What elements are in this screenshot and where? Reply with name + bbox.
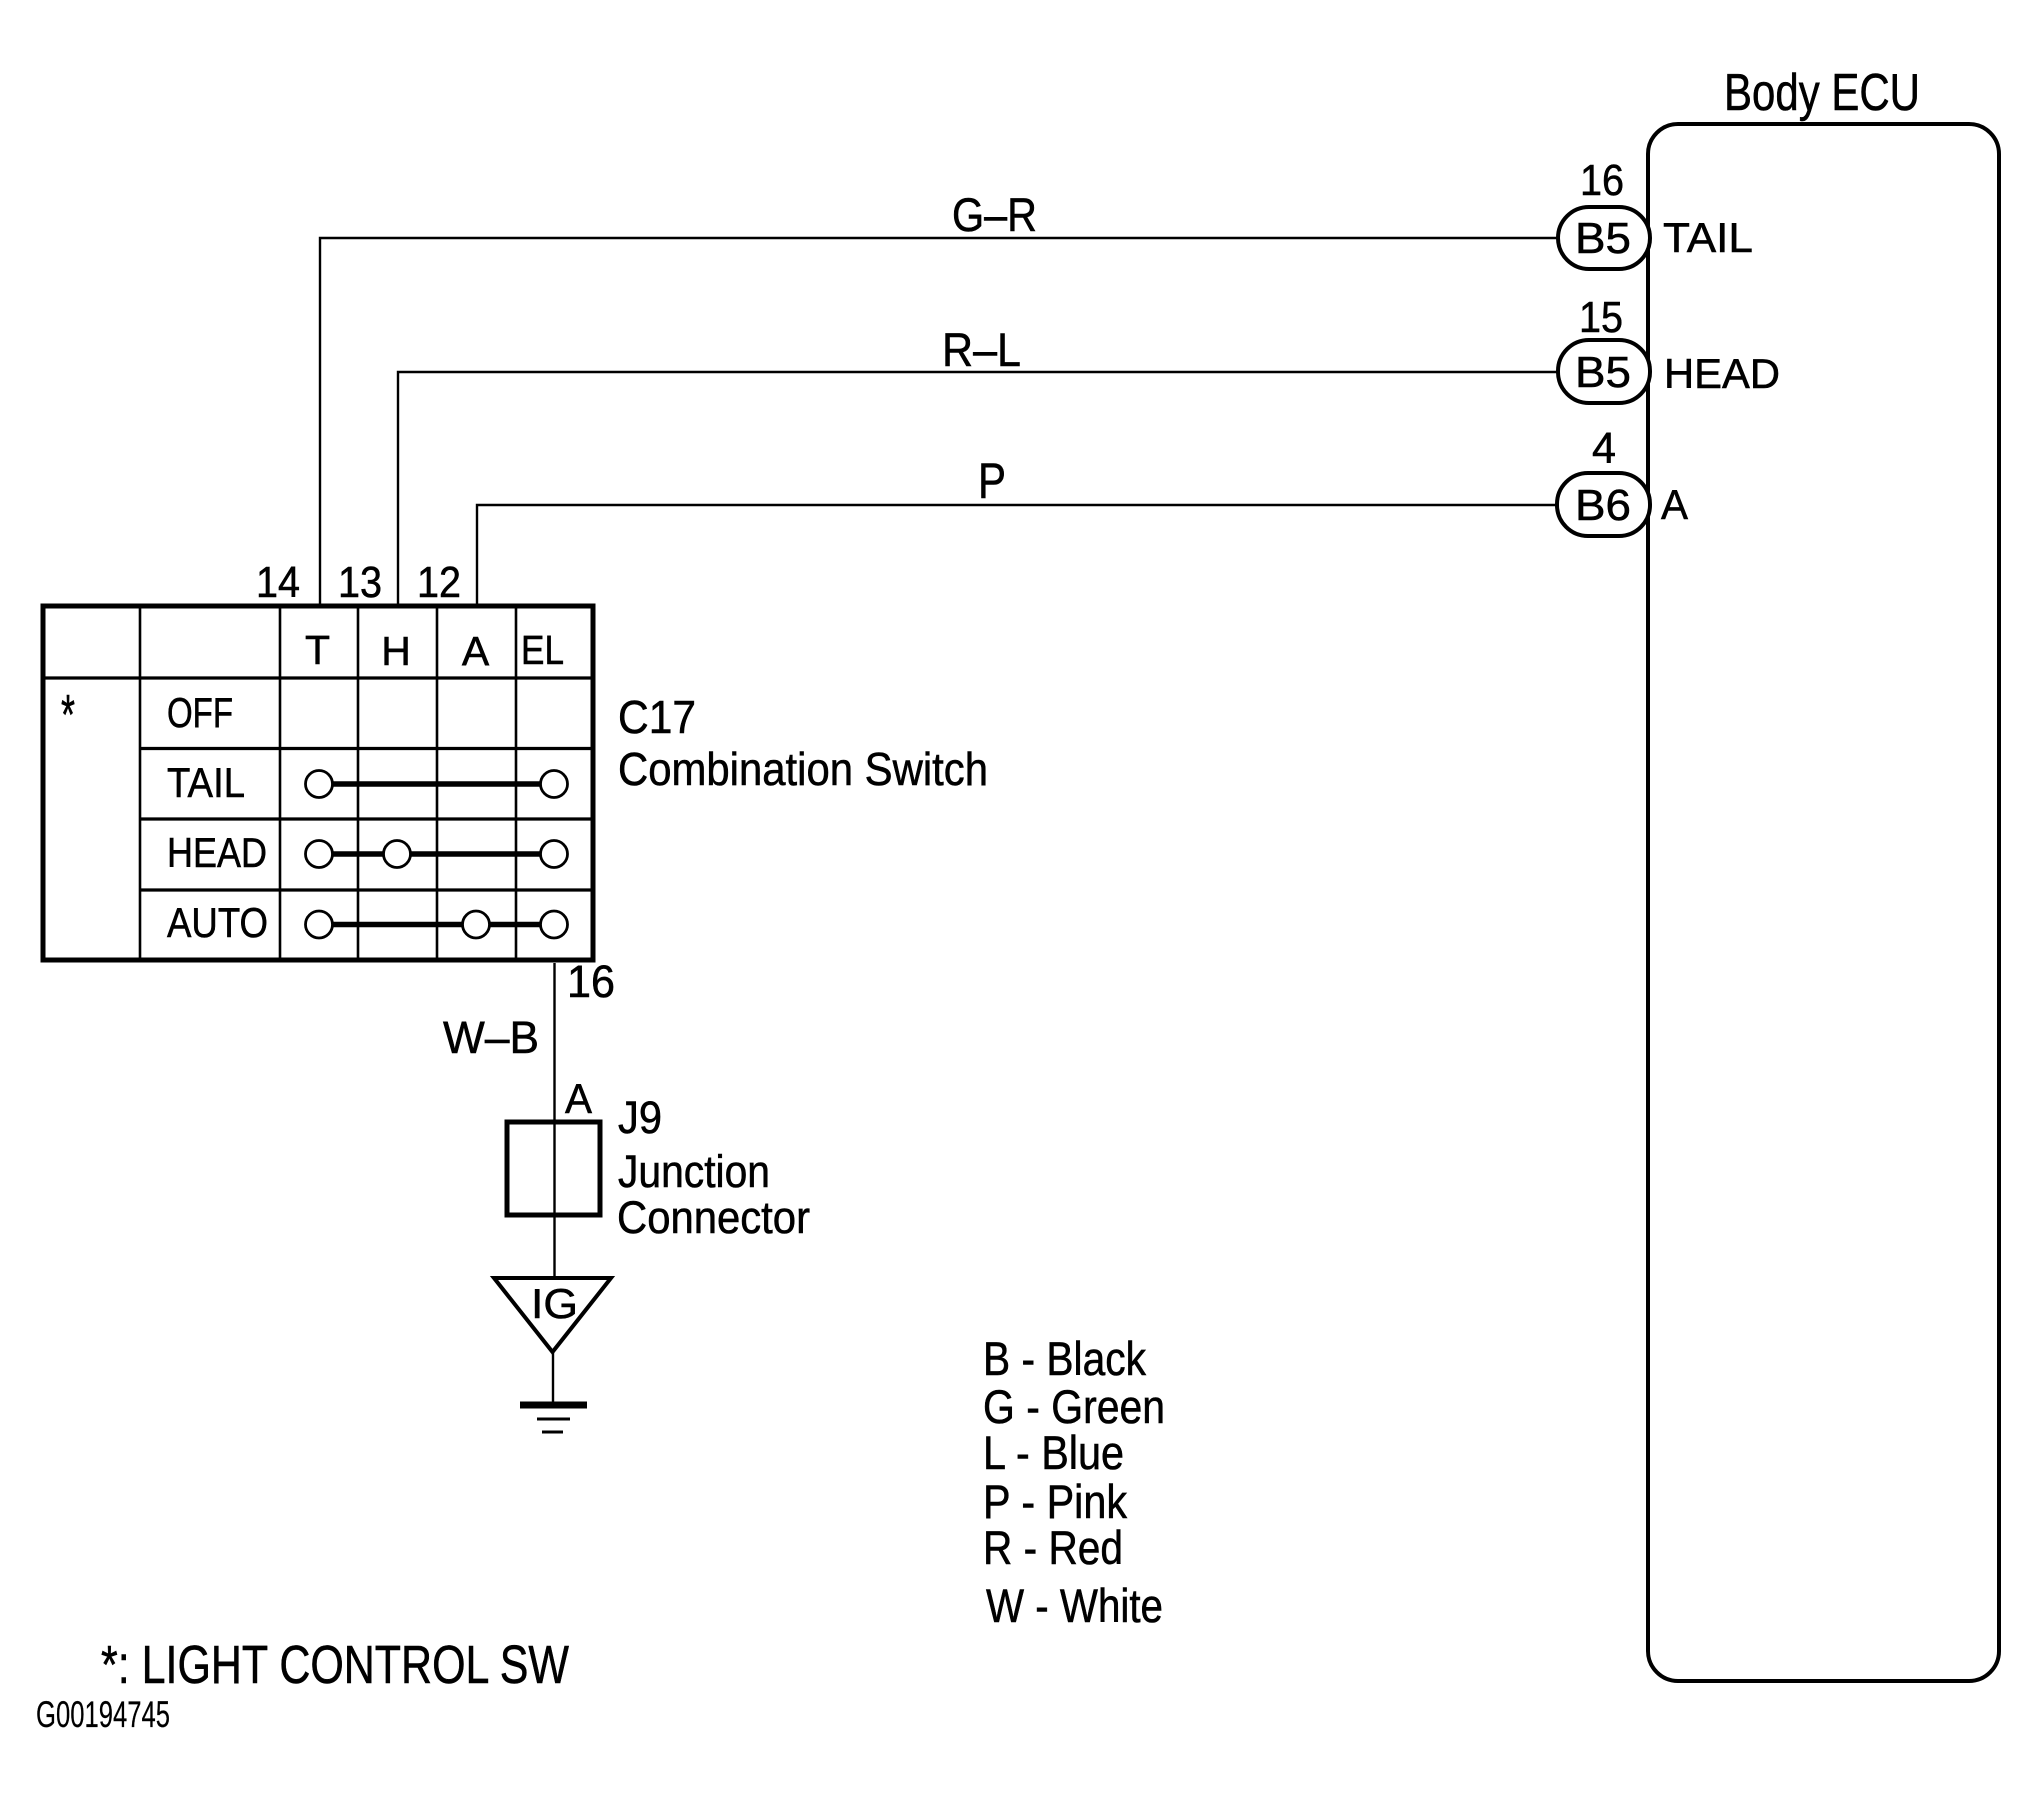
svg-text:G00194745: G00194745: [36, 1694, 170, 1735]
svg-text:A: A: [462, 628, 490, 674]
svg-text:T: T: [305, 627, 330, 673]
svg-text:*: *: [61, 683, 75, 747]
svg-text:P: P: [978, 453, 1006, 509]
svg-text:16: 16: [1580, 156, 1624, 205]
svg-text:R–L: R–L: [942, 323, 1021, 376]
svg-text:Body ECU: Body ECU: [1724, 64, 1920, 122]
svg-text:C17: C17: [618, 691, 696, 743]
svg-text:A: A: [565, 1075, 592, 1122]
svg-text:AUTO: AUTO: [167, 899, 268, 946]
svg-text:12: 12: [417, 558, 461, 607]
svg-text:G–R: G–R: [952, 188, 1037, 241]
svg-text:4: 4: [1592, 424, 1616, 473]
svg-text:J9: J9: [618, 1092, 662, 1143]
svg-text:B5: B5: [1575, 214, 1631, 263]
svg-text:B6: B6: [1575, 481, 1631, 530]
svg-text:*: LIGHT CONTROL SW: *: LIGHT CONTROL SW: [101, 1635, 569, 1695]
svg-text:HEAD: HEAD: [1664, 350, 1780, 397]
svg-text:EL: EL: [521, 627, 564, 673]
svg-text:A: A: [1661, 481, 1688, 528]
svg-text:TAIL: TAIL: [1663, 214, 1753, 261]
svg-text:H: H: [381, 628, 411, 674]
svg-text:OFF: OFF: [167, 689, 233, 736]
svg-text:Connector: Connector: [617, 1192, 810, 1243]
svg-text:W - White: W - White: [986, 1579, 1163, 1632]
svg-text:B5: B5: [1575, 348, 1631, 397]
svg-text:16: 16: [567, 956, 615, 1007]
svg-text:13: 13: [338, 558, 382, 607]
svg-text:IG: IG: [531, 1280, 578, 1327]
svg-text:Junction: Junction: [618, 1146, 770, 1197]
svg-text:TAIL: TAIL: [167, 759, 245, 806]
svg-text:R - Red: R - Red: [983, 1521, 1123, 1574]
svg-text:L - Blue: L - Blue: [983, 1426, 1124, 1479]
svg-text:14: 14: [256, 558, 300, 607]
svg-text:W–B: W–B: [443, 1012, 539, 1063]
svg-text:HEAD: HEAD: [167, 829, 267, 876]
svg-text:B - Black: B - Black: [983, 1332, 1146, 1385]
svg-text:Combination Switch: Combination Switch: [618, 743, 988, 795]
svg-text:15: 15: [1579, 293, 1623, 342]
